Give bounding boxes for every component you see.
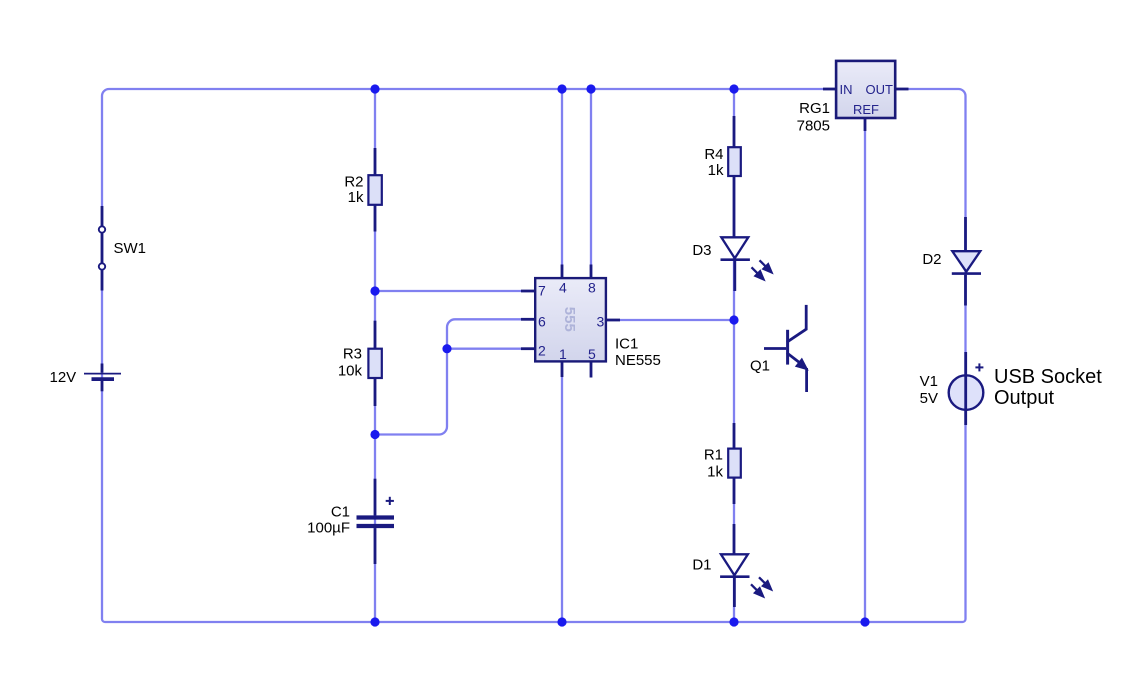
svg-text:1k: 1k	[707, 463, 723, 480]
svg-text:5V: 5V	[920, 390, 938, 407]
junction dot: pin 3 wire / LED chain	[729, 315, 738, 324]
junction dot: top rail / R2 branch	[370, 84, 379, 93]
voltage regulator RG1 7805	[823, 88, 837, 91]
wire: pin 6 down to C1 node	[375, 319, 521, 434]
svg-text:5: 5	[588, 346, 596, 362]
svg-text:R4: R4	[704, 146, 723, 163]
svg-text:2: 2	[538, 343, 546, 359]
junction dot: R2-R3 node / pin 7 wire	[370, 286, 379, 295]
resistor R4	[733, 116, 736, 148]
junction dot: pin 2 tee	[442, 344, 451, 353]
wire: pin 3 to LED chain node	[620, 319, 734, 321]
svg-text:V1: V1	[920, 373, 938, 390]
junction dot: ground rail / C1 branch	[370, 617, 379, 626]
junction dot: top rail / pin 4 branch	[557, 84, 566, 93]
junction dot: ground rail / pin 1 branch	[557, 617, 566, 626]
op-amp U1 body: timer IC1 NE555 box	[535, 278, 606, 361]
svg-text:3: 3	[597, 314, 605, 330]
junction dot: top rail / pin 8 branch	[586, 84, 595, 93]
svg-text:1k: 1k	[708, 162, 724, 179]
voltage source V1 5V (USB socket output)	[949, 375, 984, 410]
wire: outer supply loop (top rail, left rail, bottom rail, right rail)	[102, 89, 966, 622]
svg-text:6: 6	[538, 314, 546, 330]
wire: pin 2 stub to vertical feedback wire	[447, 348, 521, 350]
junction dot: ground rail / REF branch	[860, 617, 869, 626]
wire: R2/R3/C1 vertical branch at x=375	[374, 89, 376, 622]
wire: pin 8 branch from top rail	[590, 89, 592, 270]
svg-text:4: 4	[559, 280, 567, 296]
svg-text:IC1: IC1	[615, 335, 638, 352]
svg-text:7: 7	[538, 283, 546, 299]
resistor R1	[733, 423, 736, 449]
resistor R3	[374, 321, 377, 349]
plus mark of C1	[386, 497, 394, 505]
junction dot: R3-C1 node	[370, 430, 379, 439]
wire: pin 1 to ground rail	[561, 370, 563, 622]
svg-text:REF: REF	[853, 102, 879, 117]
wire: pin 7 to R2/R3 node	[375, 290, 521, 292]
svg-text:7805: 7805	[797, 118, 830, 135]
svg-text:D2: D2	[922, 251, 941, 268]
capacitor C1	[374, 479, 377, 516]
diode D2	[964, 217, 967, 251]
plus mark of V1	[975, 363, 983, 371]
svg-text:10k: 10k	[338, 363, 363, 380]
svg-text:IN: IN	[840, 82, 853, 97]
LED D3	[721, 237, 748, 258]
svg-text:R1: R1	[704, 446, 723, 463]
wire: RG1 REF to ground rail	[864, 131, 866, 622]
transistor Q1 emitter arrowhead	[796, 359, 807, 369]
svg-text:12V: 12V	[50, 369, 77, 386]
resistor R2	[374, 148, 377, 176]
wire: R4/D3/R1/D1 vertical branch at x=734	[733, 89, 735, 622]
svg-text:SW1: SW1	[114, 240, 147, 257]
svg-text:R3: R3	[343, 345, 362, 362]
op-amp U1 leads: IC1 pin leads	[521, 265, 620, 378]
junction dot: top rail / R4 branch	[729, 84, 738, 93]
svg-text:1: 1	[559, 346, 567, 362]
svg-text:NE555: NE555	[615, 352, 661, 369]
switch SW1	[101, 206, 104, 291]
svg-text:R2: R2	[344, 174, 363, 191]
svg-text:8: 8	[588, 280, 596, 296]
svg-text:OUT: OUT	[866, 82, 894, 97]
LED D1	[733, 524, 736, 554]
battery 12V	[84, 364, 121, 392]
svg-text:D1: D1	[692, 557, 711, 574]
transistor Q1	[764, 305, 807, 392]
svg-text:555: 555	[561, 307, 578, 332]
LED D1 light arrows	[751, 577, 771, 596]
junction dot: ground rail / D1 branch	[729, 617, 738, 626]
LED D3 light arrows	[752, 260, 772, 279]
svg-text:D3: D3	[692, 242, 711, 259]
svg-text:C1: C1	[331, 503, 350, 520]
svg-text:Output: Output	[994, 387, 1054, 409]
svg-text:100µF: 100µF	[307, 519, 350, 536]
svg-text:USB Socket: USB Socket	[994, 366, 1102, 388]
svg-text:Q1: Q1	[750, 357, 770, 374]
wire: pin 4 branch from top rail	[561, 89, 563, 270]
svg-text:RG1: RG1	[799, 100, 830, 117]
svg-text:1k: 1k	[348, 189, 364, 206]
